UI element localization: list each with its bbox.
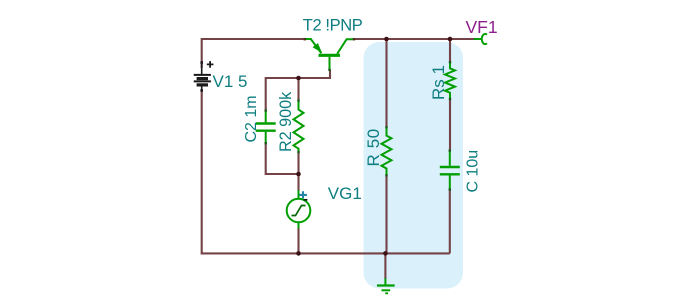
source VG1 minus tick (304, 199, 308, 201)
wire ground stub (384, 253, 386, 279)
wire top rail left (battery to T2 emitter) (202, 38, 305, 40)
battery V1 plate short thick (197, 77, 208, 80)
svg-text:C2 1m: C2 1m (243, 95, 260, 142)
capacitor C bottom plate (440, 173, 460, 175)
svg-text:T2 !PNP: T2 !PNP (303, 17, 363, 35)
capacitor C2 top plate (256, 122, 276, 124)
capacitor C2 bottom plate (256, 129, 276, 131)
ground symbol lead (384, 278, 386, 284)
transistor T2 pin tick base (328, 69, 330, 71)
wire Rs to C 10u (449, 99, 451, 151)
junction node base (R2 top) (296, 76, 301, 81)
junction node ground rail (383, 251, 388, 256)
transistor T2 pin tick collector (353, 38, 355, 40)
battery V1 top lead (201, 62, 203, 74)
capacitor C top lead (C 10u) (449, 150, 451, 166)
transistor T2 emitter arrowhead (313, 43, 323, 53)
wire base node L (T2 base to R2/C2 top) (266, 70, 330, 79)
junction node VF1 top rail (448, 37, 453, 42)
capacitor C2 top lead (265, 110, 267, 122)
wire C2 top lead (265, 77, 267, 111)
svg-text:Rs 1: Rs 1 (429, 65, 448, 100)
svg-text:R 50: R 50 (364, 128, 383, 166)
wire R column bottom (385, 175, 387, 253)
ground bar long (377, 284, 395, 286)
wire C2 bottom to node (266, 143, 299, 174)
resistor R2 pin ticks (297, 99, 299, 101)
wire VG1 top (297, 174, 299, 191)
battery V1 plate short thick lower (197, 83, 208, 86)
wire R2 bottom lead (297, 152, 299, 174)
battery V1 top pin tick (200, 61, 203, 64)
source VG1 top lead (298, 190, 300, 199)
highlight region (load network) (364, 42, 464, 289)
svg-text:VG1: VG1 (328, 184, 362, 203)
wire left column (battery top) (201, 38, 203, 68)
resistor Rs pin ticks (449, 61, 451, 63)
battery V1 bottom pin tick (200, 89, 203, 92)
capacitor C bottom lead (449, 175, 451, 189)
svg-text:R2 900k: R2 900k (277, 91, 295, 152)
wire R2 top lead (297, 78, 299, 101)
svg-text:VF1: VF1 (466, 17, 498, 37)
source VG1 waveform (292, 206, 306, 216)
junction node VG1 bottom rail (296, 251, 301, 256)
capacitor C pin ticks (449, 149, 451, 151)
svg-text:V1 5: V1 5 (213, 72, 248, 91)
battery V1 plus sign (207, 61, 214, 68)
junction node R2 bottom (296, 172, 301, 177)
svg-text:C 10u: C 10u (464, 150, 481, 193)
source VG1 bottom lead (298, 222, 300, 228)
probe VF1 stub (474, 38, 481, 40)
wire Rs column top (449, 39, 451, 62)
resistor R zigzag (R 50) (382, 127, 392, 175)
battery V1 plate long top (194, 74, 211, 76)
wire VG1 bottom (297, 228, 299, 253)
ground bar short (385, 292, 388, 294)
wire R column top (node VF to R 50) (385, 39, 387, 127)
resistor Rs zigzag (Rs 1) (445, 62, 455, 99)
wire C 10u bottom to bottom rail (449, 190, 451, 254)
capacitor C top plate (440, 166, 460, 168)
resistor R2 zigzag (294, 100, 304, 152)
ground bar middle (382, 289, 391, 291)
transistor T2 collector lead (337, 39, 354, 54)
transistor T2 emitter lead with arrow (305, 39, 322, 53)
junction node R top rail (384, 37, 389, 42)
wire left column (battery bottom to bottom rail) (201, 90, 203, 253)
battery V1 bottom lead (201, 87, 203, 92)
source VG1 plus sign (299, 191, 307, 198)
probe VF1 open ring (482, 34, 487, 44)
transistor T2 base lead (329, 57, 331, 70)
wire probe stub (450, 38, 474, 40)
resistor R pin ticks (385, 126, 387, 128)
source VG1 circle (287, 199, 311, 223)
transistor T2 pin tick emitter (304, 38, 306, 40)
transistor T2 base bar (319, 54, 341, 57)
wire top rail right (T2 collector to probe) (354, 38, 474, 40)
battery V1 plate long lower (194, 80, 211, 82)
capacitor C2 bottom lead (265, 132, 267, 144)
wire bottom rail (201, 252, 450, 254)
capacitor C2 pin ticks (265, 109, 267, 111)
